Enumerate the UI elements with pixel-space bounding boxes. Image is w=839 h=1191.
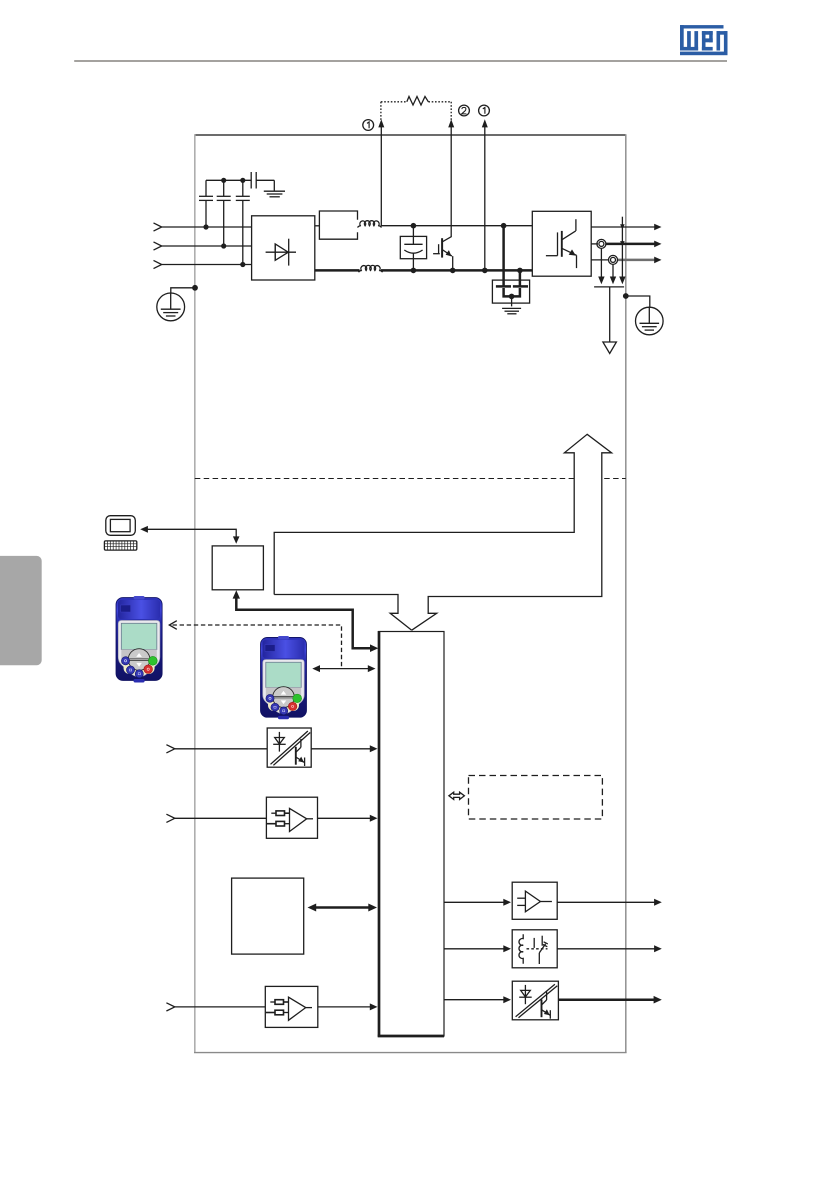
DC link capacitor plates: [404, 243, 422, 245]
DC link capacitor box: [400, 236, 426, 258]
output arrow U: [654, 224, 661, 231]
input arrow phase T: [154, 260, 162, 268]
power flow arrow lower edge: [274, 595, 412, 631]
junction dot phase T: [240, 262, 245, 267]
AO input leads: [517, 897, 525, 899]
input arrow phase R: [154, 223, 162, 231]
digital output isolator box: [512, 981, 558, 1020]
wire AI2 to control: [318, 1006, 372, 1008]
RFI filter capacitor 2: [217, 180, 231, 246]
wire phase T: [162, 264, 252, 266]
junction dot bus-cap2: [221, 178, 226, 183]
junction dot phase R: [203, 224, 208, 229]
relay coil: [519, 934, 523, 964]
label 1 circle left: [363, 120, 374, 131]
DC+ rail wire: [381, 225, 533, 227]
control board block: [378, 631, 444, 1037]
wire control to analog output: [444, 901, 505, 903]
Y-capacitor to ground: [251, 172, 274, 191]
junction dot bus-cap3: [240, 178, 245, 183]
DO phototransistor: [542, 992, 551, 1019]
serial link to control board: [236, 597, 371, 649]
drive enclosure outline: [194, 134, 627, 1053]
terminal arrow +UD (2): [450, 126, 452, 238]
PE symbol left: [157, 293, 185, 321]
DI phototransistor: [296, 739, 305, 766]
DC- rail wire (left): [315, 269, 360, 272]
inverter IGBT emitter arrowhead: [569, 249, 576, 255]
isolation barrier DO: [516, 984, 558, 1018]
bank bottom connector: [504, 288, 520, 296]
DC- rail wire (right): [381, 269, 532, 272]
wire analog input 1: [175, 817, 267, 819]
arrowhead to PC: [140, 526, 148, 533]
wire control to digital output: [444, 999, 505, 1001]
label 1 circle right: [479, 105, 490, 116]
PC keyboard icon: [104, 541, 136, 550]
power flow arrow (control to power): [274, 434, 611, 630]
braking IGBT emitter arrowhead: [446, 250, 452, 256]
AI1 resistor upper: [271, 811, 289, 816]
wire control to relay output: [444, 948, 505, 950]
serial interface box: [212, 546, 263, 590]
voltage tap mark V: [620, 241, 625, 246]
PE junction dot right: [623, 293, 629, 299]
voltage tap mark U: [620, 224, 625, 229]
output wire U: [591, 226, 656, 228]
filter bus wire: [206, 179, 251, 181]
open triangle arrowhead: [603, 342, 617, 354]
output wire W thick part: [617, 259, 655, 262]
expansion bus double arrow: [313, 906, 372, 909]
analog input 1 box: [266, 797, 317, 838]
AI1 output tail: [307, 818, 313, 820]
WEG logo: [680, 25, 728, 55]
relay link dashed: [527, 948, 548, 950]
wire analog input 2: [175, 1006, 265, 1008]
junction dot -UD rail: [482, 268, 488, 274]
AI1 op-amp triangle: [290, 808, 307, 831]
wire AI1 to control: [318, 817, 372, 819]
DC link choke bottom: [359, 265, 383, 272]
relay output box: [512, 930, 557, 968]
open arrowhead at HMI1: [169, 621, 177, 630]
RFI filter capacitor 1: [199, 180, 213, 227]
wire DI to control: [311, 748, 371, 750]
side tab: [0, 556, 42, 665]
resistor zigzag: [407, 97, 429, 106]
header rule: [74, 60, 727, 62]
inverter IGBT symbol: [546, 219, 577, 268]
PE junction dot left: [192, 285, 198, 291]
arrowhead up into interface box: [233, 590, 240, 598]
DC bus capacitor bank box: [492, 280, 529, 303]
HMI link arrow: [316, 668, 372, 670]
PE wire left: [171, 288, 195, 293]
rectifier bridge block: [252, 216, 315, 280]
braking IGBT: [433, 237, 453, 271]
output wire V thin part: [591, 243, 598, 245]
digital input arrow: [166, 745, 174, 753]
label 2 circle: [459, 105, 470, 116]
terminal arrow -UD (1): [484, 126, 486, 271]
isolation barrier DI: [271, 731, 311, 765]
analog output box: [512, 882, 557, 919]
junction dot bank mid: [509, 294, 515, 300]
junction dot DC- cap: [411, 268, 417, 274]
wire digital output out (thick): [558, 998, 655, 1001]
AI1 resistor lower: [267, 821, 290, 826]
PE wire right: [626, 296, 650, 307]
output wire V thick part: [606, 243, 656, 246]
wire phase R: [162, 226, 252, 228]
junction dot DC+ bank: [501, 223, 507, 229]
wire digital input: [175, 748, 267, 750]
wire phase S: [162, 245, 252, 247]
wire relay output out: [557, 948, 656, 950]
digital input isolator box: [267, 728, 311, 767]
DC bus capacitor bank lead +: [502, 226, 505, 286]
AI2 resistor lower: [266, 1010, 289, 1015]
AO output tail: [540, 901, 552, 903]
serial expansion double arrow symbol: [449, 792, 465, 799]
serial wire to PC: [147, 529, 237, 537]
DO LED symbol: [519, 985, 532, 1004]
dashed link to HMI1: [173, 625, 342, 669]
AO op-amp triangle: [525, 891, 540, 912]
output arrow W: [654, 257, 661, 264]
rectifier diode symbol: [266, 239, 296, 266]
ground symbol (DC bus midpoint): [502, 308, 521, 313]
bank capacitor plates: [496, 285, 511, 288]
input arrow phase S: [154, 242, 162, 250]
current feedback wire V: [600, 248, 602, 279]
PC monitor icon: [106, 516, 136, 536]
ground symbol (filter): [264, 191, 285, 197]
current sensor W: [609, 255, 618, 264]
voltage feedback wire: [621, 217, 623, 279]
optional module dashed box: [469, 776, 603, 820]
output wire W thin part: [591, 259, 609, 261]
feedback summing bar: [594, 286, 624, 288]
AI2 output tail: [306, 1007, 312, 1009]
analog input 1 arrow: [166, 814, 174, 822]
RFI filter capacitor 3: [236, 180, 250, 264]
inverter block: [532, 211, 591, 276]
white mask under power-flow arrow: [575, 473, 601, 485]
HMI keypad 1: [116, 596, 162, 683]
current sensor V: [597, 239, 606, 248]
DC link capacitor lead top: [412, 226, 414, 245]
DC link capacitor lead bottom: [412, 253, 414, 270]
DC bus capacitor bank lead -: [519, 270, 522, 286]
precharge box: [319, 211, 357, 239]
DI LED symbol: [273, 732, 286, 752]
junction dot brake emitter: [450, 268, 456, 274]
output arrow V: [654, 241, 661, 248]
current feedback wire W: [612, 264, 614, 279]
HMI keypad 2: [261, 636, 307, 719]
analog input 2 box: [265, 986, 318, 1027]
wire analog output out: [557, 901, 656, 903]
power/control separator dashed line: [195, 478, 626, 480]
relay mid bar: [533, 938, 535, 948]
junction dot DC- bank: [517, 268, 523, 274]
junction dot phase S: [221, 243, 226, 248]
bank midpoint ground lead: [511, 296, 513, 306]
relay contact: [539, 936, 548, 964]
feedback wire to control: [609, 287, 611, 342]
arrowhead into interface box: [233, 536, 240, 543]
AI2 op-amp triangle: [289, 997, 306, 1020]
AI2 resistor upper: [270, 1000, 288, 1005]
terminal arrow BR (1): [380, 126, 382, 226]
wire rectifier to precharge: [315, 225, 320, 227]
analog input 2 arrow: [166, 1003, 174, 1011]
PE symbol right: [636, 307, 664, 335]
expansion slot box: [232, 878, 304, 954]
braking resistor (dotted external): [381, 102, 451, 121]
DC link choke top: [358, 221, 382, 228]
arrowhead into control board: [370, 644, 378, 652]
junction dot DC+ cap: [411, 223, 417, 229]
